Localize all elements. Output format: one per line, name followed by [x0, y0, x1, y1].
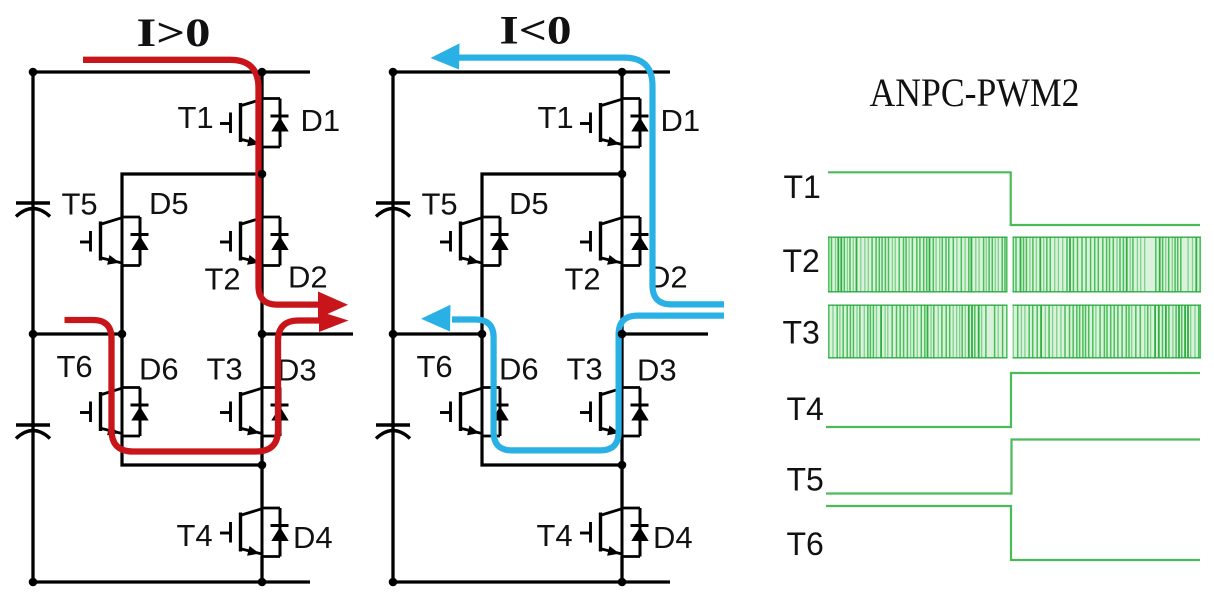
wire: neutral to T6 (mid): [393, 332, 482, 335]
wire: T2 emitter to output node (mid): [620, 266, 623, 335]
diode D4 (mid) (anti-parallel): [631, 508, 649, 557]
svg-text:T4: T4: [177, 518, 213, 553]
diode D6 (mid) (anti-parallel): [491, 388, 509, 437]
T1 gate waveform (high then low): [828, 172, 1200, 225]
wire: left DC-link rail (left): [31, 72, 34, 582]
node junction M4 (393,334): [389, 330, 398, 339]
svg-text:T5: T5: [787, 462, 824, 498]
svg-text:D5: D5: [149, 186, 189, 221]
wire: T2 emitter to output node (left): [260, 266, 263, 335]
diode D1 (left) (anti-parallel): [271, 99, 289, 148]
node junction L8 (33,582): [29, 578, 38, 587]
svg-text:D2: D2: [288, 260, 328, 295]
wire: T6 collector (left): [120, 334, 123, 388]
transistor T3 (mid) (IGBT symbol): [580, 387, 640, 438]
svg-text:T2: T2: [205, 262, 241, 297]
wire: top DC rail (mid): [393, 70, 670, 73]
node junction L3 (262,174): [258, 170, 267, 179]
svg-text:T4: T4: [537, 518, 573, 553]
node junction M6 (622,334): [618, 330, 627, 339]
wire: T4 collector (mid): [620, 465, 623, 508]
svg-text:D1: D1: [301, 103, 341, 138]
svg-text:D6: D6: [499, 352, 539, 387]
wire: top DC rail (left): [33, 70, 310, 73]
diode D5 (mid) (anti-parallel): [491, 217, 509, 266]
diode D3 (left) (anti-parallel): [271, 388, 289, 437]
red arrowhead upper: [318, 292, 348, 319]
svg-text:D1: D1: [661, 103, 701, 138]
diode D2 (mid) (anti-parallel): [631, 217, 649, 266]
svg-text:ANPC-PWM2: ANPC-PWM2: [870, 70, 1080, 115]
red current path I>0 upper (through T1,T2 to output): [83, 60, 332, 305]
wire: T1-T2 midpoint link (mid): [620, 147, 623, 217]
wire: T1 collector drop (mid): [620, 72, 623, 99]
svg-text:D5: D5: [509, 186, 549, 221]
T6 gate waveform (high then low): [826, 506, 1200, 560]
diode D4 (left) (anti-parallel): [271, 508, 289, 557]
wire: T3 emitter drop (mid): [620, 436, 623, 465]
wire: T6 emitter link (mid): [482, 436, 622, 465]
node junction M1 (393,72): [389, 68, 398, 77]
transistor T2 (left) (IGBT symbol): [220, 216, 280, 267]
wire: T6 emitter link (left): [122, 436, 262, 465]
svg-text:T1: T1: [178, 100, 214, 135]
wire: T4 emitter to bottom rail (mid): [620, 557, 623, 583]
node junction L4 (33,334): [29, 330, 38, 339]
capacitor C2 (mid): [376, 425, 410, 439]
transistor T2 (mid) (IGBT symbol): [580, 216, 640, 267]
wire: T3 emitter drop (left): [260, 436, 263, 465]
svg-text:T6: T6: [787, 526, 824, 562]
svg-text:T5: T5: [422, 187, 458, 222]
diode D6 (left) (anti-parallel): [131, 388, 149, 437]
node junction M8 (393,582): [389, 578, 398, 587]
wire: T4 collector (left): [260, 465, 263, 508]
transistor T5 (mid) (IGBT symbol): [440, 216, 500, 267]
diode D3 (mid) (anti-parallel): [631, 388, 649, 437]
diode D2 (left) (anti-parallel): [271, 217, 289, 266]
svg-text:T2: T2: [783, 243, 820, 279]
transistor T4 (left) (IGBT symbol): [220, 507, 280, 558]
transistor T6 (mid) (IGBT symbol): [440, 387, 500, 438]
transistor T1 (mid) (IGBT symbol): [580, 98, 640, 149]
wire: T3 collector (mid): [620, 334, 623, 388]
T3 gate waveform PWM switching band: [828, 305, 1201, 359]
transistor T1 (left) (IGBT symbol): [220, 98, 280, 149]
red arrowhead lower: [319, 311, 349, 332]
wire: bottom DC rail (mid): [393, 580, 670, 583]
svg-text:T6: T6: [57, 349, 93, 384]
node junction L2 (262,72): [258, 68, 267, 77]
svg-text:T2: T2: [565, 262, 601, 297]
svg-text:I<0: I<0: [500, 8, 572, 53]
node junction M3 (622,174): [618, 170, 627, 179]
blue current path I<0 lower (through T3,D6 loop to neutral): [452, 316, 724, 451]
blue arrowhead lower: [421, 305, 451, 332]
wire: T1-T2 midpoint link (left): [260, 147, 263, 217]
capacitor C1 (mid): [376, 203, 410, 217]
wire: clamp branch to T5 (left): [122, 174, 262, 217]
node junction M9 (622,582): [618, 578, 627, 587]
node junction L1 (33,72): [29, 68, 38, 77]
node junction L9 (262,582): [258, 578, 267, 587]
svg-text:D4: D4: [293, 520, 333, 555]
wire: neutral to T6 (left): [33, 332, 122, 335]
svg-text:I>0: I>0: [137, 10, 211, 55]
node junction M7 (622,465): [618, 461, 627, 470]
wire: T6 collector (mid): [480, 334, 483, 388]
T2 gate waveform PWM switching band: [828, 237, 1201, 293]
wire: left DC-link rail (mid): [391, 72, 394, 582]
node junction L6 (262,334): [258, 330, 267, 339]
wire: T5 emitter to neutral (left): [120, 266, 123, 335]
node junction M5 (482,334): [478, 330, 487, 339]
wire: T3 collector (left): [260, 334, 263, 388]
svg-text:T1: T1: [538, 100, 574, 135]
T5 gate waveform (low then high): [826, 440, 1200, 494]
transistor T4 (mid) (IGBT symbol): [580, 507, 640, 558]
transistor T6 (left) (IGBT symbol): [80, 387, 140, 438]
diode D5 (left) (anti-parallel): [131, 217, 149, 266]
node junction L7 (262,465): [258, 461, 267, 470]
red current path I>0 lower (through T6,D6,T3,D3 loop): [65, 320, 333, 452]
svg-text:T4: T4: [787, 391, 824, 427]
svg-text:D4: D4: [653, 520, 693, 555]
svg-text:T3: T3: [567, 352, 603, 387]
diode D1 (mid) (anti-parallel): [631, 99, 649, 148]
T4 gate waveform (low then high): [826, 373, 1200, 427]
transistor T5 (left) (IGBT symbol): [80, 216, 140, 267]
node junction L5 (122,334): [118, 330, 127, 339]
transistor T3 (left) (IGBT symbol): [220, 387, 280, 438]
wire: T1 collector drop (left): [260, 72, 263, 99]
wire: output terminal (mid): [622, 332, 708, 335]
node junction M2 (622,72): [618, 68, 627, 77]
blue current path I<0 upper (through D1 to top rail): [456, 58, 724, 305]
svg-text:D3: D3: [277, 353, 317, 388]
blue arrowhead upper: [431, 43, 460, 69]
wire: T4 emitter to bottom rail (left): [260, 557, 263, 583]
capacitor C2 (left): [16, 425, 50, 439]
svg-text:D6: D6: [139, 352, 179, 387]
svg-text:T1: T1: [784, 169, 821, 205]
svg-text:T5: T5: [62, 187, 98, 222]
wire: clamp branch to T5 (mid): [482, 174, 622, 217]
svg-text:D3: D3: [637, 353, 677, 388]
wire: bottom DC rail (left): [33, 580, 310, 583]
svg-text:T3: T3: [207, 352, 243, 387]
svg-text:T6: T6: [417, 349, 453, 384]
wire: T5 emitter to neutral (mid): [480, 266, 483, 335]
wire: output terminal (left): [262, 332, 353, 335]
capacitor C1 (left): [16, 203, 50, 217]
svg-text:T3: T3: [783, 315, 820, 351]
